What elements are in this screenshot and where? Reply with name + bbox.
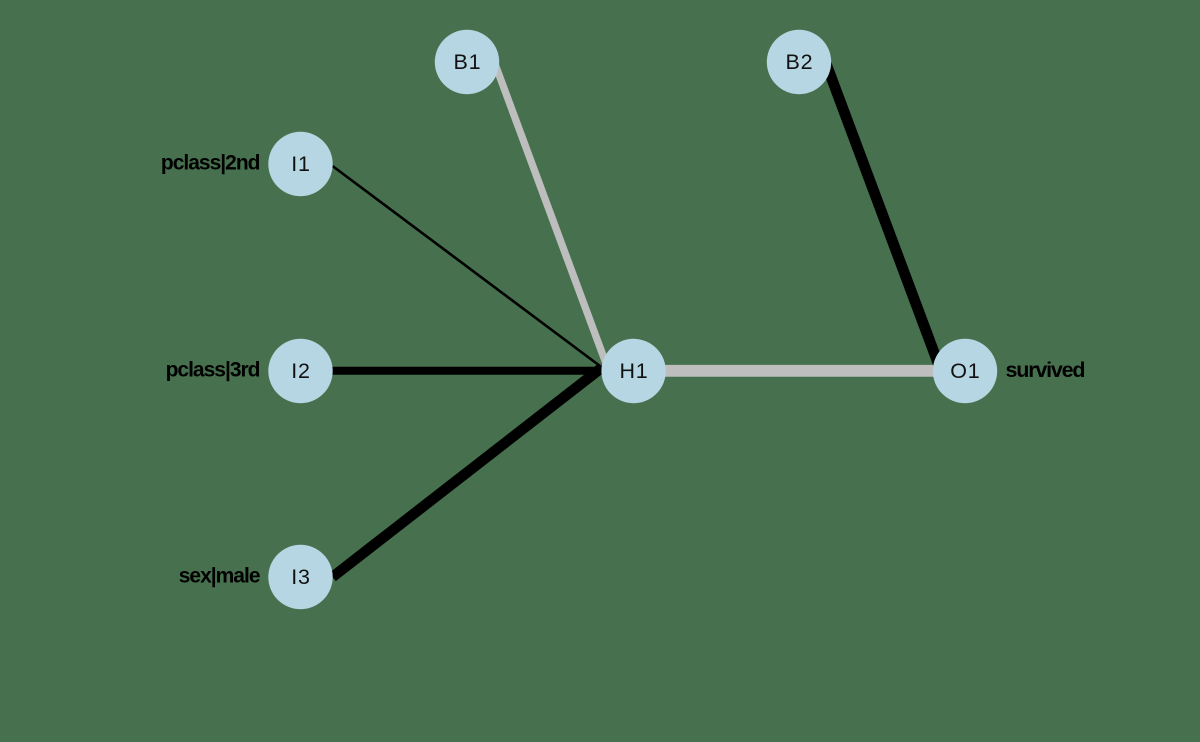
svg-text:I1: I1: [291, 152, 311, 176]
svg-text:pclass|3rd: pclass|3rd: [166, 359, 260, 382]
svg-text:survived: survived: [1006, 358, 1085, 382]
svg-text:O1: O1: [950, 359, 980, 383]
svg-text:B1: B1: [453, 50, 481, 74]
svg-text:H1: H1: [619, 359, 648, 383]
svg-text:pclass|2nd: pclass|2nd: [161, 152, 260, 175]
svg-text:I3: I3: [291, 565, 311, 589]
svg-text:I2: I2: [291, 359, 311, 383]
svg-text:B2: B2: [785, 50, 813, 74]
svg-text:sex|male: sex|male: [179, 565, 260, 588]
